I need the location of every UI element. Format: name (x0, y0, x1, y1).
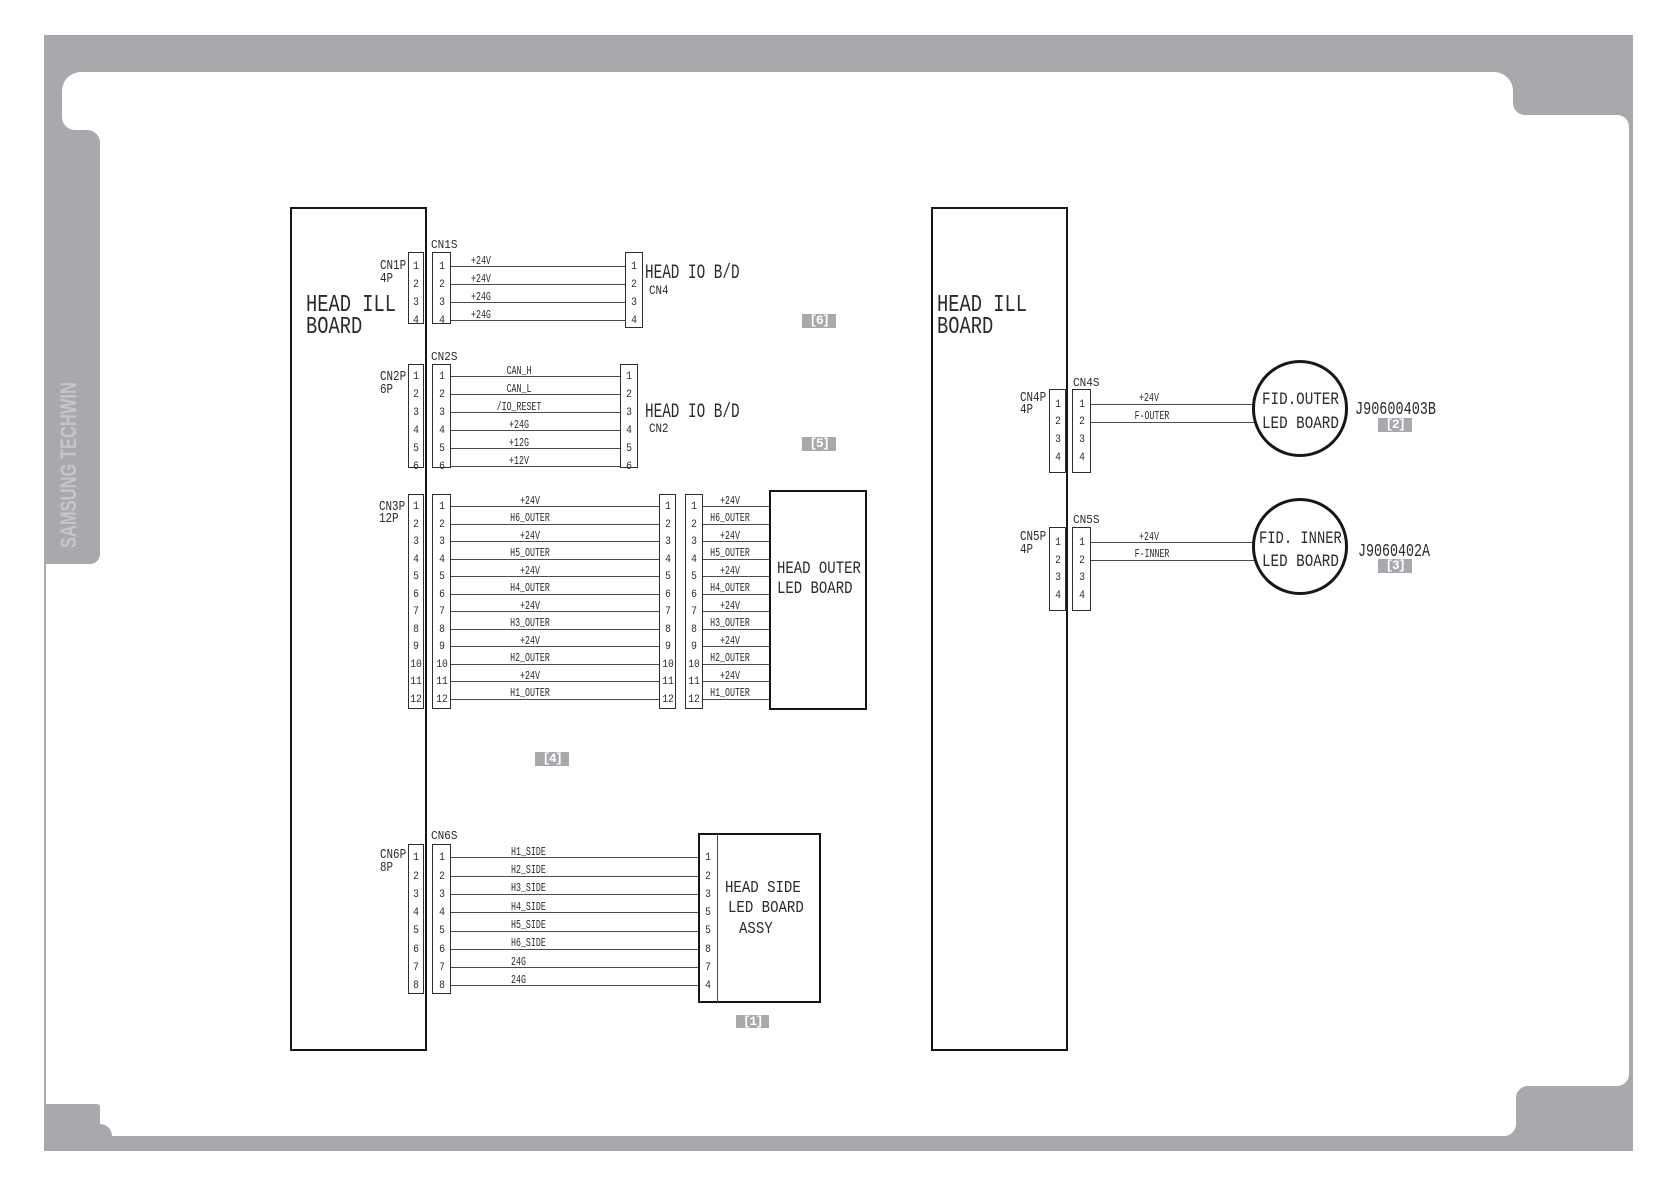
board FID. INNER LED BOARD (1252, 498, 1349, 595)
board HEAD ILL BOARD (left) (290, 207, 427, 1051)
wire CN3S-10 H2_OUTER (left segment) (451, 664, 659, 665)
connector CN2P 6P (408, 364, 424, 468)
wire outer-led-3 +24V (right segment) (703, 541, 769, 542)
wire CN2S-4 +24G (451, 430, 620, 431)
wire CN6S-3 H3_SIDE (451, 894, 699, 895)
connector CN4P 4P (1049, 389, 1066, 474)
connector CN3S (432, 494, 451, 709)
wire CN3S-3 +24V (left segment) (451, 541, 659, 542)
connector CN1P 4P (408, 252, 424, 324)
wire CN2S-3 /IO_RESET (451, 412, 620, 413)
wire outer-led-5 +24V (right segment) (703, 576, 769, 577)
wire CN1S-4 +24G (451, 320, 625, 321)
wire CN1S-2 +24V (451, 284, 625, 285)
wire outer-led-4 H5_OUTER (right segment) (703, 559, 769, 560)
tag [4] (535, 752, 569, 766)
connector CN4S (1072, 389, 1091, 474)
connector HEAD IO B/D CN4 (625, 252, 643, 328)
wire CN2S-1 CAN_H (451, 376, 620, 377)
connector CN5S (1072, 527, 1091, 611)
board HEAD SIDE LED BOARD ASSY (698, 833, 821, 1003)
wire CN5S-2 F-INNER (1091, 560, 1260, 561)
connector CN2S (432, 364, 451, 468)
wire outer-led-12 H1_OUTER (right segment) (703, 699, 769, 700)
wire CN3S-5 +24V (left segment) (451, 576, 659, 577)
wire CN1S-3 +24G (451, 302, 625, 303)
label HEAD IO B/D CN2 (645, 402, 740, 422)
wire CN2S-6 +12V (451, 466, 620, 467)
connector CN5P 4P (1049, 527, 1066, 611)
board FID.OUTER LED BOARD (1252, 360, 1349, 457)
wire CN1S-1 +24V (451, 266, 625, 267)
wire CN4S-2 F-OUTER (1091, 422, 1260, 423)
wire outer-led-10 H2_OUTER (right segment) (703, 664, 769, 665)
wire CN3S-9 +24V (left segment) (451, 646, 659, 647)
tag [3] (1378, 559, 1412, 573)
wire CN4S-1 +24V (1091, 404, 1258, 405)
wire outer-led-8 H3_OUTER (right segment) (703, 629, 769, 630)
wire CN6S-7 24G (451, 967, 699, 968)
connector CN6S (432, 844, 451, 994)
wire CN3S-1 +24V (left segment) (451, 506, 659, 507)
wire outer-led-6 H4_OUTER (right segment) (703, 594, 769, 595)
wire CN6S-4 H4_SIDE (451, 912, 699, 913)
board HEAD ILL BOARD (right) (931, 207, 1068, 1051)
connector CN3P 12P (408, 494, 424, 709)
label HEAD IO B/D CN4 (645, 263, 740, 283)
wire CN3S-2 H6_OUTER (left segment) (451, 524, 659, 525)
wire CN6S-6 H6_SIDE (451, 949, 699, 950)
wire outer-led-11 +24V (right segment) (703, 681, 769, 682)
wire CN6S-8 24G (451, 985, 699, 986)
wire CN3S-12 H1_OUTER (left segment) (451, 699, 659, 700)
wire outer-led-1 +24V (right segment) (703, 506, 769, 507)
tag [6] (802, 314, 836, 328)
label J90600403B (1355, 401, 1436, 419)
label J9060402A (1358, 543, 1430, 561)
wire outer-led-7 +24V (right segment) (703, 611, 769, 612)
wire CN3S-11 +24V (left segment) (451, 681, 659, 682)
board HEAD OUTER LED BOARD (769, 490, 867, 711)
connector CN1S (432, 252, 451, 324)
connector outer-led plug B (685, 494, 703, 709)
wire CN3S-7 +24V (left segment) (451, 611, 659, 612)
wire outer-led-2 H6_OUTER (right segment) (703, 524, 769, 525)
connector CN6P 8P (408, 844, 424, 994)
wire CN3S-4 H5_OUTER (left segment) (451, 559, 659, 560)
wire outer-led-9 +24V (right segment) (703, 646, 769, 647)
connector outer-led plug A (659, 494, 676, 709)
wire CN3S-6 H4_OUTER (left segment) (451, 594, 659, 595)
tag [1] (736, 1015, 769, 1028)
connector HEAD IO B/D CN2 (620, 364, 638, 468)
wire CN2S-2 CAN_L (451, 394, 620, 395)
wire CN5S-1 +24V (1091, 542, 1258, 543)
wire CN3S-8 H3_OUTER (left segment) (451, 629, 659, 630)
wire CN6S-5 H5_SIDE (451, 931, 699, 932)
wire CN2S-5 +12G (451, 448, 620, 449)
wire CN6S-2 H2_SIDE (451, 876, 699, 877)
tag [2] (1378, 418, 1412, 432)
wire CN6S-1 H1_SIDE (451, 857, 699, 858)
tag [5] (802, 437, 836, 451)
